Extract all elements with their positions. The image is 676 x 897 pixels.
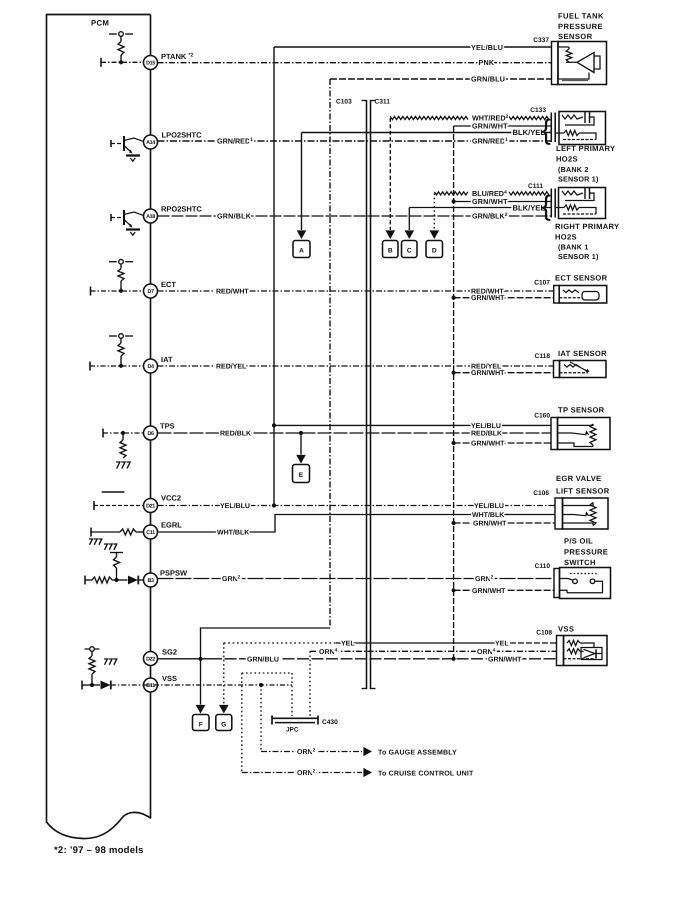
box D xyxy=(426,241,443,258)
junction dot F branch on ground row xyxy=(198,657,202,661)
svg-text:RED/YEL: RED/YEL xyxy=(216,363,247,371)
svg-text:D21: D21 xyxy=(146,504,155,510)
box C xyxy=(402,241,418,258)
in-line connector C103/C311 double line xyxy=(366,100,368,689)
VSS internal transistor block xyxy=(580,643,594,648)
off-page branch to box A xyxy=(301,133,303,231)
box A xyxy=(293,241,310,258)
wire GRN/WHT to ECT sensor xyxy=(454,297,554,299)
P/S switch body xyxy=(560,568,611,599)
input tick ECT xyxy=(90,287,92,296)
transistor at A14 (LPO2SHTC driver) xyxy=(110,140,112,147)
junction dot B3 internal xyxy=(114,578,118,582)
wire GRN/BLK from A18 to right HO2S xyxy=(158,215,552,217)
wire VSS pulse from B11 xyxy=(144,684,293,686)
P/S switch contacts xyxy=(570,573,599,575)
arrow to cruise control unit xyxy=(363,768,372,777)
svg-text:GRN/WHT: GRN/WHT xyxy=(471,294,505,302)
svg-text:EGRL: EGRL xyxy=(161,521,182,530)
PCM pin D6 (TPS) xyxy=(144,426,158,440)
svg-text:PCM: PCM xyxy=(91,19,109,28)
wire GRN/WHT to IAT sensor xyxy=(454,372,554,374)
svg-text:RED/WHT: RED/WHT xyxy=(216,288,249,296)
chassis hatch above B3 resistor xyxy=(104,544,107,550)
junction dot B11 branch xyxy=(259,683,263,687)
svg-text:SWITCH: SWITCH xyxy=(564,558,596,567)
TP wiper arrow xyxy=(558,432,573,434)
svg-text:GRN/WHT: GRN/WHT xyxy=(473,520,507,528)
diode at B3 pin xyxy=(128,576,138,585)
wire branch down to cruise feed xyxy=(241,673,243,773)
wire GRN2 from B3 to P/S oil pressure switch xyxy=(158,578,555,580)
junction dot GRN/WHT ECT on bus xyxy=(452,296,456,300)
IAT sensor body xyxy=(560,361,607,378)
svg-text:SENSOR 1): SENSOR 1) xyxy=(558,252,599,261)
svg-text:D15: D15 xyxy=(146,61,155,67)
PCM pin B11 (VSS) xyxy=(144,678,158,692)
svg-text:JPC: JPC xyxy=(286,727,299,734)
svg-text:VCC2: VCC2 xyxy=(161,494,181,503)
svg-text:PSPSW: PSPSW xyxy=(160,569,188,578)
svg-text:PNK: PNK xyxy=(479,58,495,67)
fuel tank sensor internal resistor xyxy=(558,46,569,48)
P/S switch connector face xyxy=(554,569,560,598)
TP sensor body xyxy=(558,418,611,450)
VSS internal resistors xyxy=(567,640,580,645)
diode at B11 pin xyxy=(92,684,100,686)
ground at A14 driver xyxy=(126,154,140,156)
svg-text:F: F xyxy=(199,721,203,728)
svg-text:C133: C133 xyxy=(530,107,546,114)
right HO2S internal sensing element xyxy=(562,191,583,195)
svg-text:GRN/WHT: GRN/WHT xyxy=(472,122,508,131)
off-page branch to box F (GRN/BLU) xyxy=(200,659,202,705)
fuel tank pressure sensor body xyxy=(558,42,607,85)
TP internal potentiometer xyxy=(590,424,596,445)
input tick VCC2 xyxy=(93,501,95,510)
wire tick to D15 xyxy=(101,61,144,63)
svg-text:D7: D7 xyxy=(147,289,153,295)
tick above B3 resistor xyxy=(110,552,123,554)
pull-up resistor at IAT pin xyxy=(109,335,117,337)
svg-text:FUEL TANK: FUEL TANK xyxy=(558,12,604,21)
input tick B3 xyxy=(84,576,86,585)
svg-text:A14: A14 xyxy=(146,140,155,146)
wire GRN/BLU jog to F branch xyxy=(201,628,331,659)
svg-text:ECT SENSOR: ECT SENSOR xyxy=(555,274,608,283)
svg-text:PRESSURE: PRESSURE xyxy=(558,22,603,31)
right HO2S body xyxy=(559,188,606,219)
svg-text:IAT: IAT xyxy=(161,355,173,364)
junction dot GRN/WHT IAT on bus xyxy=(452,371,456,375)
svg-text:RPO2SHTC: RPO2SHTC xyxy=(161,205,202,214)
EGR connector face xyxy=(555,498,563,529)
input tick PTANK xyxy=(100,58,102,67)
stub line above VCC2 xyxy=(102,491,125,493)
svg-text:TP SENSOR: TP SENSOR xyxy=(558,406,605,415)
svg-text:(BANK 2: (BANK 2 xyxy=(558,165,589,174)
svg-text:C108: C108 xyxy=(536,630,552,637)
svg-text:LPO2SHTC: LPO2SHTC xyxy=(162,131,203,140)
fuel tank pressure sensor connector face xyxy=(552,42,559,85)
wire into JPC top left xyxy=(291,673,293,716)
ECT sensor body xyxy=(559,286,607,304)
off-page branch to box B xyxy=(389,118,391,230)
svg-text:*2: ’97 – 98 models: *2: ’97 – 98 models xyxy=(54,845,144,856)
svg-text:C107: C107 xyxy=(534,280,550,287)
junction dot GRN/WHT EGR on bus xyxy=(452,521,456,525)
svg-text:G: G xyxy=(221,721,226,728)
wire WHT/RED shielded to left HO2S xyxy=(390,116,468,119)
svg-text:RED/BLK: RED/BLK xyxy=(471,430,502,438)
EGR wiper arrow xyxy=(563,514,575,516)
IAT internal thermistor xyxy=(564,365,580,368)
input tick EGRL xyxy=(90,528,92,537)
svg-text:D6: D6 xyxy=(147,431,153,437)
junction dot RED/BLK to box E xyxy=(299,431,303,435)
wire RED/YEL from D4 to IAT sensor xyxy=(158,365,554,367)
wire YEL/BLU from D21 to EGR lift sensor xyxy=(158,505,556,507)
left HO2S internal sensing element xyxy=(562,115,583,119)
wire ORN4 to VSS sensor xyxy=(310,650,557,652)
svg-text:C160: C160 xyxy=(534,413,550,420)
PCM pin D7 (ECT) xyxy=(144,284,158,298)
svg-text:C103: C103 xyxy=(336,99,352,106)
input tick B11 xyxy=(81,681,83,690)
svg-text:WHT/BLK: WHT/BLK xyxy=(472,511,504,519)
svg-text:E: E xyxy=(299,472,304,479)
input tick IAT xyxy=(89,362,91,371)
svg-text:ECT: ECT xyxy=(161,280,176,289)
svg-text:D: D xyxy=(432,248,437,255)
svg-text:C111: C111 xyxy=(528,183,543,190)
wire GRN/RED from A14 to left HO2S xyxy=(158,140,552,142)
svg-text:A18: A18 xyxy=(146,214,155,220)
VSS connector face xyxy=(557,636,564,666)
wire WHT/BLK from C11 to EGR lift sensor xyxy=(158,515,556,533)
svg-text:BLK/YEL: BLK/YEL xyxy=(513,204,546,213)
junction dot GRN/WHT TP on bus xyxy=(452,441,456,445)
IAT connector face xyxy=(554,361,560,378)
box G xyxy=(216,715,232,731)
svg-text:YEL: YEL xyxy=(495,641,509,648)
wire BLK/YEL heater feed from off-page A xyxy=(302,132,552,134)
chassis hatch beside B11 resistor xyxy=(104,659,107,665)
wire ORN2 to cruise control unit xyxy=(242,772,362,774)
svg-text:C337: C337 xyxy=(533,37,549,44)
svg-text:{: { xyxy=(542,114,551,145)
pull-up resistor at PTANK pin xyxy=(109,33,117,35)
svg-text:D22: D22 xyxy=(146,657,155,663)
wire YEL/BLU branch to TP sensor xyxy=(274,424,551,426)
svg-text:BLK/YEL: BLK/YEL xyxy=(513,128,546,137)
wire ORN2 to gauge assembly xyxy=(261,751,362,753)
svg-text:{: { xyxy=(542,190,551,221)
svg-text:B3: B3 xyxy=(147,578,153,584)
VSS body xyxy=(564,636,608,666)
junction dot B11 internal xyxy=(90,683,94,687)
svg-text:RED/BLK: RED/BLK xyxy=(220,430,251,438)
junction dot at PTANK pull-up xyxy=(119,60,123,64)
EGR internal potentiometer xyxy=(590,503,596,526)
TP connector face xyxy=(551,418,558,450)
wire YEL/BLU to fuel tank pressure sensor xyxy=(274,46,552,48)
svg-text:YEL/BLU: YEL/BLU xyxy=(474,502,504,510)
wire GRN/WHT to EGR lift sensor xyxy=(454,522,555,524)
svg-text:RIGHT PRIMARY: RIGHT PRIMARY xyxy=(555,222,619,231)
ground at A18 driver xyxy=(126,228,140,230)
wire YEL to VSS sensor / off-page G xyxy=(224,642,336,644)
wire RED/WHT from D7 to ECT sensor xyxy=(158,290,554,292)
left HO2S connector face xyxy=(550,113,552,143)
wire GRN/BLU vertical feed (fuel tank sensor ground) xyxy=(329,79,331,628)
series resistor at B3 pin xyxy=(85,579,92,581)
pull-down resistor at TPS pin xyxy=(122,433,124,440)
svg-text:B: B xyxy=(388,248,393,255)
svg-text:WHT/BLK: WHT/BLK xyxy=(217,529,249,537)
svg-text:LEFT PRIMARY: LEFT PRIMARY xyxy=(556,144,615,153)
box E xyxy=(293,465,310,483)
arrow to gauge assembly xyxy=(363,747,372,756)
svg-text:YEL/BLU: YEL/BLU xyxy=(471,43,503,52)
junction dot GRN/WHT bus on ground row xyxy=(452,657,456,661)
svg-text:GRN/BLK: GRN/BLK xyxy=(217,212,252,221)
vertical resistor above B3 xyxy=(116,553,118,558)
svg-text:GRN/RED1: GRN/RED1 xyxy=(217,137,253,146)
junction dot YEL/BLU vertical feed at VCC2 row xyxy=(272,503,276,507)
svg-text:C110: C110 xyxy=(535,563,551,570)
junction dot YEL/BLU TP on VCC feed xyxy=(272,423,276,427)
wire BLK/YEL heater feed from off-page C xyxy=(409,207,551,209)
right HO2S internal heater resistor xyxy=(556,207,564,209)
wire ORN4 corner down to JPC xyxy=(309,651,311,716)
box F xyxy=(193,715,210,731)
svg-text:C311: C311 xyxy=(375,99,391,106)
EGR sensor body xyxy=(563,498,609,529)
wire GRN/WHT to P/S switch xyxy=(454,589,554,591)
svg-text:VSS: VSS xyxy=(162,674,177,683)
chassis hatch at EGRL xyxy=(89,539,92,545)
svg-text:YEL: YEL xyxy=(341,641,355,648)
svg-text:GRN/BLK2: GRN/BLK2 xyxy=(472,212,508,221)
vertical resistor above B11 xyxy=(91,651,93,656)
svg-text:To CRUISE CONTROL UNIT: To CRUISE CONTROL UNIT xyxy=(378,770,474,777)
ECT internal thermistor xyxy=(563,290,579,293)
off-page branch to box E xyxy=(300,433,302,455)
svg-text:To GAUGE ASSEMBLY: To GAUGE ASSEMBLY xyxy=(378,749,457,756)
ECT connector face xyxy=(554,286,560,304)
svg-text:GRN/WHT: GRN/WHT xyxy=(472,587,506,595)
PCM pin A18 (RPO2SHTC) xyxy=(144,209,158,223)
svg-text:YEL/BLU: YEL/BLU xyxy=(220,502,250,510)
svg-text:SG2: SG2 xyxy=(162,648,177,657)
PCM pin A14 (LPO2SHTC) xyxy=(144,135,158,149)
svg-text:GRN/WHT: GRN/WHT xyxy=(471,369,505,377)
svg-text:GRN/WHT: GRN/WHT xyxy=(472,197,508,206)
PCM pin D4 (IAT) xyxy=(144,359,158,373)
wire GRN/WHT sensor-ground bus vertical xyxy=(453,126,455,659)
svg-text:YEL/BLU: YEL/BLU xyxy=(471,422,501,430)
svg-text:GRN/BLU: GRN/BLU xyxy=(471,75,505,84)
wire GRN/WHT left HO2S from bus corner xyxy=(454,125,551,127)
svg-text:GRN/WHT: GRN/WHT xyxy=(471,440,505,448)
svg-text:(BANK 1: (BANK 1 xyxy=(558,242,589,251)
svg-text:TPS: TPS xyxy=(160,422,175,431)
junction dot GRN/WHT right HO2S on bus xyxy=(452,199,456,203)
svg-text:C106: C106 xyxy=(533,490,549,497)
wire GRN/WHT to TP sensor xyxy=(454,442,551,444)
PCM pin D21 (VCC2) xyxy=(144,499,158,513)
wire GRN/WHT right HO2S from bus xyxy=(454,201,551,203)
svg-text:GRN/BLU: GRN/BLU xyxy=(247,655,279,663)
wire GRN/BLU - GRN/WHT sensor ground row from D22 to VSS xyxy=(158,658,211,660)
svg-text:HO2S: HO2S xyxy=(555,233,577,242)
fuel tank sensor internal amplifier triangle xyxy=(566,61,577,63)
wire branch down to gauge feed xyxy=(260,685,262,752)
PCM pin header line xyxy=(150,15,152,819)
left HO2S internal heater resistor xyxy=(556,132,564,134)
svg-text:IAT SENSOR: IAT SENSOR xyxy=(558,349,607,358)
off-page branch to box G (YEL) xyxy=(223,643,225,705)
svg-text:SENSOR 1): SENSOR 1) xyxy=(558,174,599,183)
svg-text:C11: C11 xyxy=(146,530,155,536)
PCM pin D22 (SG2) xyxy=(144,652,158,666)
series resistor at EGRL pin xyxy=(120,529,136,535)
wire YEL/BLU vertical feed (VCC2 reference) xyxy=(273,47,275,506)
chassis hatch at TPS resistor xyxy=(116,462,120,469)
fuel tank sensor internal bottom lead xyxy=(558,73,589,80)
wire RED/BLK from D6 to TP sensor xyxy=(158,432,552,434)
svg-text:GRN/RED1: GRN/RED1 xyxy=(472,137,508,146)
transistor at A18 (RPO2SHTC driver) xyxy=(110,214,112,221)
pull-up resistor at ECT pin xyxy=(109,261,117,263)
fuel tank sensor fine print xyxy=(562,80,588,82)
right HO2S connector face xyxy=(550,189,552,218)
box B xyxy=(383,241,399,258)
wire BLU/RED shielded to right HO2S xyxy=(434,192,468,195)
svg-text:B11: B11 xyxy=(146,683,155,689)
svg-text:HO2S: HO2S xyxy=(556,155,578,164)
junction dot at ECT pull-up xyxy=(119,289,123,293)
input tick TPS xyxy=(102,429,104,438)
svg-text:EGR VALVE: EGR VALVE xyxy=(556,474,601,483)
junction connector JPC C430 xyxy=(272,717,318,719)
PCM pin C11 (EGRL) xyxy=(144,525,158,539)
svg-text:C430: C430 xyxy=(322,719,338,726)
off-page branch to box C xyxy=(408,208,410,231)
left HO2S body xyxy=(559,112,606,145)
svg-text:C: C xyxy=(407,248,412,255)
pull-up node circle above B11 xyxy=(90,647,95,652)
svg-text:VSS: VSS xyxy=(558,625,574,634)
PCM pin B3 (PSPSW) xyxy=(144,573,158,587)
wire PNK from D15 to fuel tank pressure sensor xyxy=(158,62,553,64)
svg-text:PRESSURE: PRESSURE xyxy=(564,548,608,557)
PCM enclosure box (torn bottom) xyxy=(47,15,152,839)
svg-text:LIFT SENSOR: LIFT SENSOR xyxy=(556,487,610,496)
svg-text:P/S OIL: P/S OIL xyxy=(564,537,593,546)
svg-text:A: A xyxy=(299,248,304,255)
wire jog above JPC xyxy=(242,672,292,674)
svg-text:C118: C118 xyxy=(535,353,551,360)
svg-text:GRN/WHT: GRN/WHT xyxy=(488,655,522,663)
svg-text:SENSOR: SENSOR xyxy=(558,32,593,41)
junction dot at IAT pull-up xyxy=(119,364,123,368)
wire GRN/BLU to fuel tank pressure sensor xyxy=(330,78,552,80)
junction dot TPS internal xyxy=(121,431,125,435)
svg-text:D4: D4 xyxy=(147,364,153,370)
off-page branch to box D xyxy=(433,193,435,230)
junction dot GRN/WHT P/S on bus xyxy=(452,588,456,592)
PCM pin D15 (PTANK) xyxy=(144,56,158,70)
